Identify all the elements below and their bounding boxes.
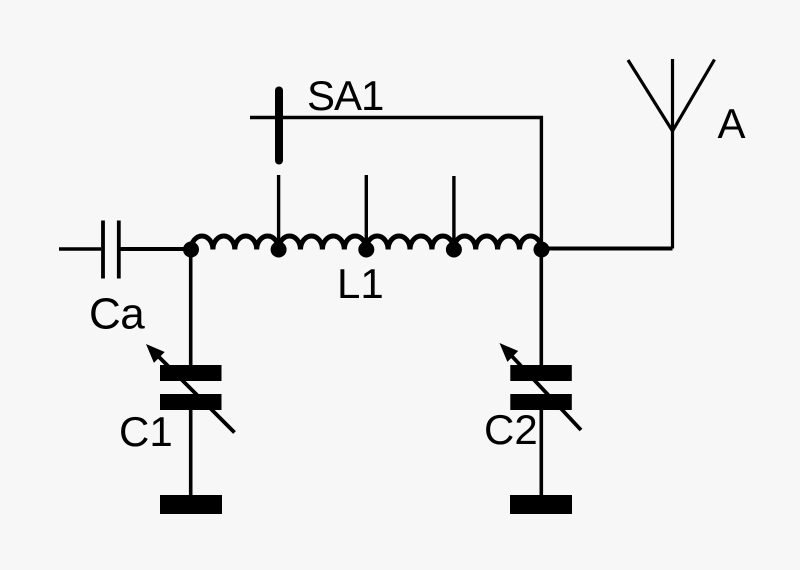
node L1 tap 2 bbox=[358, 242, 374, 258]
capacitor C1 (variable) bbox=[160, 365, 222, 410]
ground under C1 bbox=[160, 495, 222, 514]
tap wire 3 bbox=[452, 176, 455, 249]
inductor L1 bbox=[191, 236, 541, 250]
node L1 tap 1 bbox=[271, 242, 287, 258]
svg-text:Ca: Ca bbox=[89, 290, 145, 339]
ground under C2 bbox=[510, 495, 572, 514]
switch SA1 wiper bar bbox=[275, 91, 283, 161]
capacitor Ca bbox=[103, 221, 119, 279]
tap wire 2 bbox=[365, 175, 368, 249]
variable arrow of C2 bbox=[500, 343, 582, 430]
wire SA1 horizontal to right branch bbox=[250, 118, 541, 250]
tap wire 1 bbox=[277, 175, 280, 249]
variable arrow of C1 bbox=[146, 344, 235, 433]
wire C1 bottom plate to ground bbox=[189, 410, 193, 496]
antenna A bbox=[628, 59, 715, 249]
node L1 tap 3 bbox=[446, 242, 462, 258]
svg-text:C2: C2 bbox=[484, 406, 538, 453]
node L1 input (Ca/L1/C1 junction) bbox=[183, 242, 199, 258]
svg-text:A: A bbox=[718, 100, 746, 147]
capacitor C2 (variable) bbox=[510, 365, 572, 410]
wire node to C1 top plate bbox=[189, 250, 193, 367]
wire node to C2 top plate bbox=[539, 250, 543, 367]
svg-text:SA1: SA1 bbox=[307, 72, 383, 119]
wire input stub left of Ca bbox=[59, 247, 101, 251]
wire Ca to L1 input node bbox=[121, 247, 193, 251]
wire C2 bottom plate to ground bbox=[539, 410, 543, 496]
svg-text:C1: C1 bbox=[119, 408, 173, 455]
svg-text:L1: L1 bbox=[337, 260, 384, 307]
wire L1 output to antenna bbox=[542, 247, 673, 251]
node L1 output (L1/C2/antenna junction) bbox=[534, 242, 550, 258]
